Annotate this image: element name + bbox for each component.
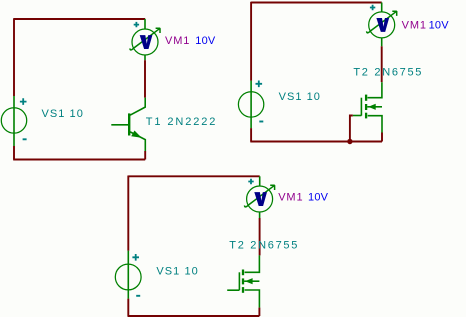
wire emitter to bottom rail circuit 1 — [144, 151, 146, 160]
wire left rail lower segment circuit 1 — [13, 146, 15, 160]
wire left rail lower segment circuit 3 — [127, 299, 129, 316]
wire source to bottom rail circuit 3 — [258, 308, 260, 316]
wire left rail lower segment circuit 2 — [250, 128, 252, 141]
plus sign VS1 circuit 1 — [20, 98, 27, 105]
plus sign VM1 circuit 2 — [370, 5, 375, 10]
wire voltmeter top lead circuit 2 — [381, 3, 383, 12]
plus sign VM1 circuit 1 — [134, 22, 139, 27]
voltmeter VM1 circuit 2 — [367, 11, 397, 38]
wire left rail circuit 2 — [250, 2, 252, 81]
wire bottom rail circuit 2 — [250, 141, 382, 143]
wire source to bottom rail circuit 2 — [381, 133, 383, 142]
voltmeter VM1 circuit 3 — [245, 185, 275, 212]
svg-text:VS1 10: VS1 10 — [156, 266, 198, 278]
svg-text:VM1: VM1 — [165, 35, 190, 47]
wire gate to bottom rail circuit 2 — [350, 116, 353, 142]
svg-text:T1 2N2222: T1 2N2222 — [146, 116, 218, 128]
svg-text:T2 2N6755: T2 2N6755 — [229, 239, 299, 251]
svg-text:10V: 10V — [195, 35, 216, 47]
wire voltmeter to drain circuit 2 — [381, 46, 383, 82]
voltage source VS1 circuit 2 — [238, 81, 263, 128]
minus sign VS1 circuit 1 — [23, 138, 27, 140]
voltage source VS1 circuit 1 — [1, 96, 26, 146]
wire top rail circuit 2 — [251, 2, 382, 4]
voltage source VS1 circuit 3 — [115, 251, 141, 299]
wire voltmeter bottom stub circuit 3 — [259, 212, 261, 218]
wire left rail circuit 3 — [127, 176, 129, 251]
plus sign VS1 circuit 2 — [256, 81, 263, 88]
wire voltmeter top lead circuit 1 — [144, 19, 146, 29]
svg-text:10V: 10V — [308, 192, 329, 204]
wire voltmeter top lead circuit 3 — [259, 176, 261, 186]
voltmeter VM1 circuit 1 — [130, 28, 160, 55]
plus sign VM1 circuit 3 — [248, 179, 253, 184]
transistor T2 2N6755 circuit 2 (NMOS) — [353, 82, 382, 132]
transistor T2 2N6755 circuit 3 (NMOS) — [227, 255, 259, 307]
minus sign VS1 circuit 3 — [136, 295, 140, 297]
svg-text:10V: 10V — [429, 19, 450, 31]
wire bottom rail circuit 1 — [13, 159, 145, 161]
junction node gate-source circuit 2 — [347, 139, 352, 144]
wire voltmeter to collector circuit 1 — [144, 60, 146, 97]
svg-text:VM1: VM1 — [278, 192, 303, 204]
wire voltmeter to drain circuit 3 — [259, 218, 261, 255]
wire left rail circuit 1 — [13, 18, 15, 96]
svg-text:T2 2N6755: T2 2N6755 — [353, 66, 423, 78]
minus sign VS1 circuit 2 — [259, 121, 263, 123]
svg-text:VS1 10: VS1 10 — [279, 91, 321, 103]
wire top rail circuit 1 — [14, 18, 145, 20]
svg-text:VS1 10: VS1 10 — [42, 108, 84, 120]
wire top rail circuit 3 — [128, 175, 259, 177]
plus sign VS1 circuit 3 — [132, 254, 139, 261]
transistor T1 2N2222 circuit 1 — [111, 98, 145, 151]
wire voltmeter bottom stub circuit 2 — [381, 38, 383, 46]
svg-text:VM1: VM1 — [402, 19, 427, 31]
wire voltmeter bottom stub circuit 1 — [144, 55, 146, 60]
wire bottom rail circuit 3 — [128, 315, 260, 317]
